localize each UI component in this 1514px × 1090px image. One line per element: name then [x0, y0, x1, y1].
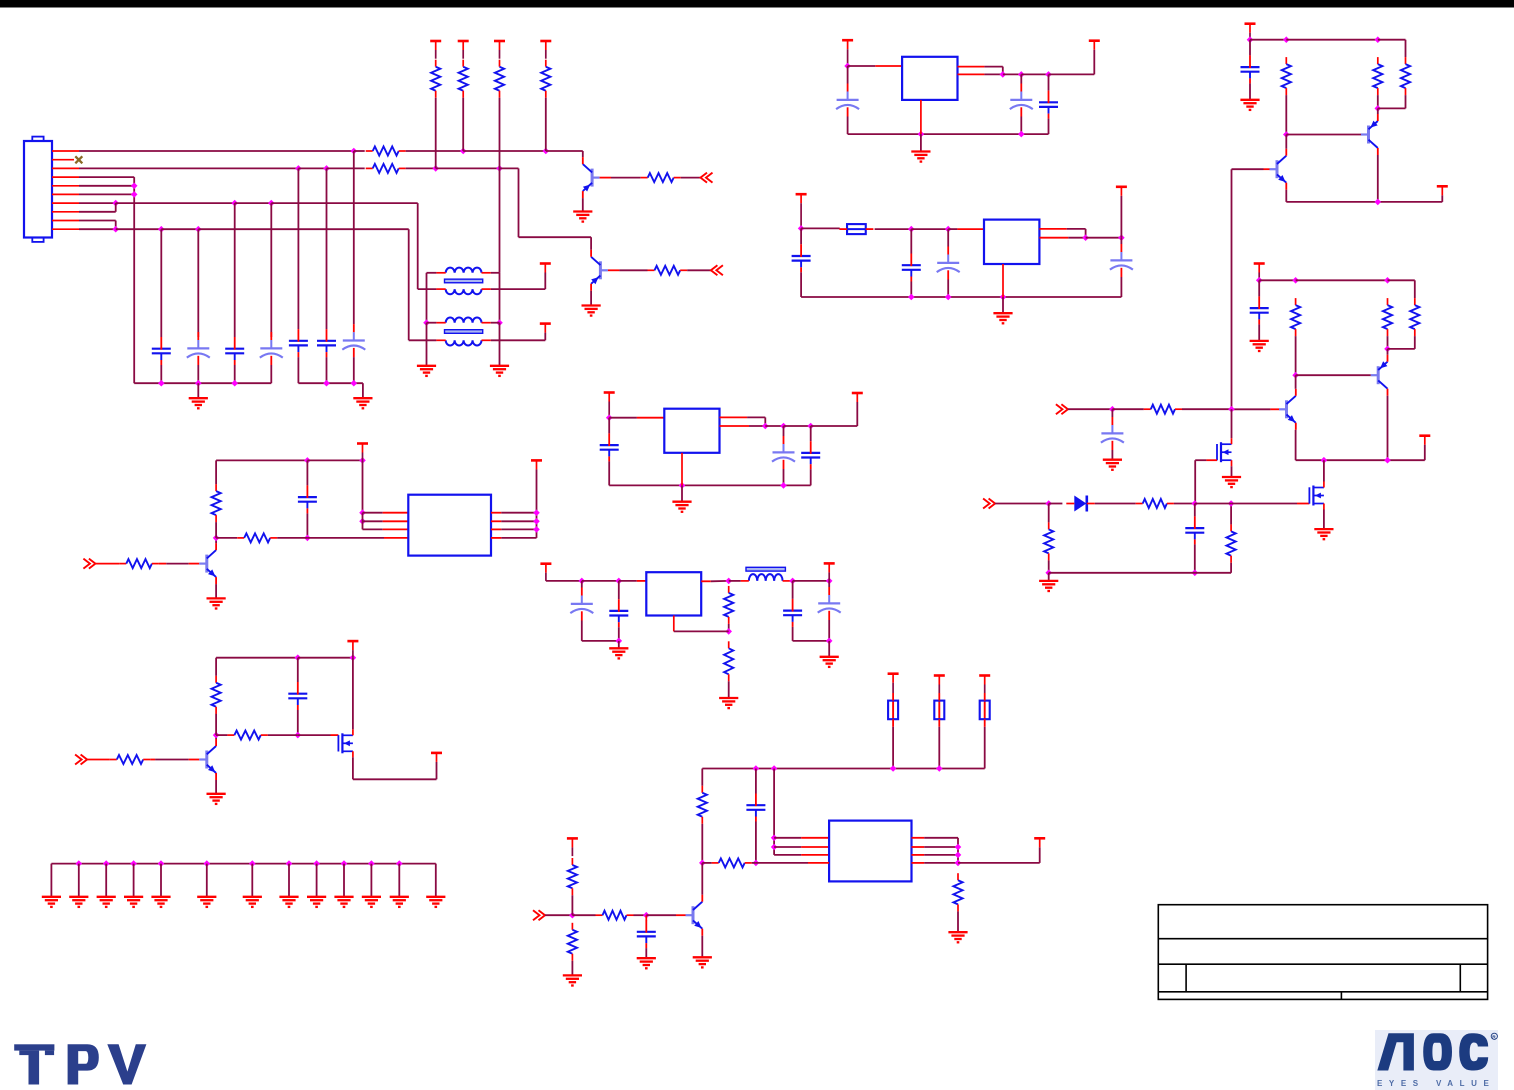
resistor R21 [568, 923, 577, 961]
junction [1384, 457, 1391, 464]
wire [544, 273, 546, 290]
wire [984, 73, 1002, 75]
wire (collector) [1295, 375, 1297, 389]
junction [753, 765, 760, 772]
junction [1192, 500, 1199, 507]
wire [79, 228, 116, 230]
MOSFET Q12 [1309, 482, 1324, 510]
junction [158, 380, 165, 387]
wire [501, 512, 536, 514]
wire [331, 734, 339, 736]
transistor Q10 [1279, 389, 1296, 430]
wire (ground stem) [251, 864, 253, 897]
wire [912, 854, 925, 856]
capacitor C18 [298, 485, 317, 513]
capacitor C16 (polarized) [772, 436, 795, 469]
voltage regulator U1 [902, 57, 957, 100]
junction [359, 509, 366, 516]
wire (cap stub) [645, 915, 647, 920]
resistor R16 [724, 641, 733, 681]
wire [801, 854, 829, 856]
wire [306, 513, 308, 538]
transistor Q7 [1361, 114, 1378, 155]
junction [195, 226, 202, 233]
capacitor C14 (polarized) [1110, 244, 1133, 277]
resistor R7 [641, 173, 681, 182]
wire [1296, 279, 1388, 281]
junction [955, 860, 962, 867]
wire (output tie) [957, 838, 959, 863]
wire [297, 168, 299, 329]
wire [417, 203, 419, 289]
power symbol [357, 444, 368, 461]
wire [1021, 73, 1048, 75]
wire [764, 417, 766, 426]
wire [1259, 279, 1295, 281]
fuse F1 [839, 224, 873, 234]
junction [780, 482, 787, 489]
wire [611, 177, 641, 179]
ground [719, 698, 738, 708]
power symbol [888, 674, 899, 693]
junction [295, 654, 302, 661]
TPV logo [14, 1044, 146, 1084]
junction [789, 578, 796, 585]
ground [948, 932, 967, 942]
wire [571, 895, 573, 915]
wire [215, 522, 217, 538]
junction [131, 183, 138, 190]
capacitor C29 [1185, 516, 1204, 544]
junction [890, 765, 897, 772]
wire [362, 513, 364, 530]
off-page connector (output) [711, 265, 723, 275]
junction [762, 423, 769, 430]
ground [637, 958, 656, 968]
wire (collector) [215, 538, 217, 543]
power symbol VCC [540, 41, 551, 59]
wire [1194, 504, 1196, 517]
capacitor C4 (polarized) [260, 332, 283, 365]
wire [947, 280, 949, 298]
junction [826, 638, 833, 645]
capacitor C11 [792, 244, 811, 272]
junction [286, 860, 293, 867]
capacitor C5 [289, 329, 308, 357]
svg-text:R: R [1492, 1035, 1496, 1041]
capacitor C28 (polarized) [1101, 417, 1124, 450]
wire [938, 727, 940, 769]
wire [571, 961, 573, 975]
ground [243, 897, 262, 907]
wire [1182, 408, 1232, 410]
wire (emitter) [1377, 108, 1379, 114]
capacitor C27 [1250, 296, 1269, 324]
wire [808, 862, 829, 864]
capacitor C20 (polarized) [570, 588, 593, 621]
wire [728, 624, 730, 632]
junction [679, 482, 686, 489]
junction [323, 380, 330, 387]
wire [582, 640, 619, 642]
junction [1228, 406, 1235, 413]
wire [362, 383, 364, 397]
junction [1018, 71, 1025, 78]
junction [725, 628, 732, 635]
wire [270, 365, 272, 383]
wire [1020, 117, 1022, 135]
wire [1174, 503, 1195, 505]
power symbol [431, 753, 442, 762]
wire [755, 769, 757, 794]
junction [908, 294, 915, 301]
no-connect X on pin 2 [75, 156, 82, 163]
power symbol [852, 393, 863, 402]
power symbol [540, 564, 551, 581]
ground [911, 152, 930, 162]
wire [427, 322, 437, 324]
junction [1118, 234, 1125, 241]
junction [323, 165, 330, 172]
wire [783, 469, 785, 485]
wire [491, 528, 501, 530]
resistor R25 [1401, 57, 1410, 95]
wire [499, 98, 501, 169]
wire [234, 365, 236, 383]
resistor R32 [1227, 524, 1236, 562]
junction [496, 319, 503, 326]
wire [297, 658, 299, 682]
wire [160, 365, 162, 383]
wire [79, 185, 134, 187]
junction [304, 457, 311, 464]
wire [1194, 460, 1196, 503]
wire (ground stem) [398, 864, 400, 897]
wire (ground bus) [801, 296, 1121, 298]
wire [116, 202, 235, 204]
wire [491, 322, 500, 324]
capacitor C3 [225, 337, 244, 365]
junction [204, 860, 211, 867]
power symbol [1437, 186, 1448, 195]
voltage regulator U3 [664, 409, 719, 453]
wire [463, 150, 546, 152]
wire [810, 426, 812, 441]
wire [1085, 229, 1087, 238]
power symbol [1419, 436, 1430, 445]
power symbol VCC [430, 41, 441, 59]
resistor R14 [227, 731, 267, 740]
wire [353, 778, 437, 780]
wire (ground stem) [343, 864, 345, 897]
wire (ground stem) [435, 864, 437, 897]
wire [383, 512, 409, 514]
junction [616, 638, 623, 645]
wire [298, 657, 353, 659]
wire [1120, 238, 1122, 244]
resistor R11 [237, 533, 277, 542]
wire [701, 580, 711, 582]
wire [582, 151, 584, 157]
wire [1424, 445, 1426, 461]
power symbol [567, 838, 578, 856]
ground [1240, 100, 1259, 110]
wire [1414, 336, 1416, 349]
wire [924, 862, 958, 864]
MOSFET Q5 [338, 729, 353, 757]
resistor R31 [1136, 499, 1174, 508]
wire [1230, 563, 1232, 573]
wire [774, 846, 801, 848]
wire [645, 948, 647, 958]
ground [279, 897, 298, 907]
wire [215, 460, 217, 484]
pin 8 lead [52, 211, 79, 213]
wire [408, 229, 410, 340]
wire [912, 837, 925, 839]
ground [820, 657, 839, 667]
wire [1230, 504, 1232, 525]
junction [112, 226, 119, 233]
wire [681, 177, 701, 179]
wire [79, 220, 116, 222]
junction [432, 165, 439, 172]
wire [116, 228, 162, 230]
junction [249, 860, 256, 867]
junction [1321, 457, 1328, 464]
wire (ground stem) [206, 864, 208, 897]
ground [609, 648, 628, 658]
capacitor C7 (polarized) [342, 324, 365, 357]
title block [1158, 905, 1487, 1000]
wire [801, 837, 829, 839]
ground [693, 957, 712, 967]
junction [918, 131, 925, 138]
wire [1195, 503, 1231, 505]
off-page connector (input) [533, 910, 545, 920]
power symbol [540, 264, 551, 273]
wire (ground stem) [105, 864, 107, 897]
resistor R19 [953, 873, 962, 911]
junction [955, 852, 962, 859]
pin 9 lead [52, 220, 79, 222]
wire (drain) [1323, 460, 1325, 481]
capacitor C12 [902, 254, 921, 282]
wire [155, 759, 189, 761]
wire (ground stem) [133, 864, 135, 897]
wire (ground stem) [316, 864, 318, 897]
wire [1249, 40, 1251, 56]
junction [908, 226, 915, 233]
black top bar [0, 0, 1514, 8]
wire [234, 203, 236, 337]
capacitor C9 (polarized) [1010, 84, 1033, 117]
wire [911, 228, 948, 230]
wire [681, 485, 683, 501]
wire [363, 512, 383, 514]
capacitor C25 [637, 920, 656, 948]
wire [491, 272, 500, 274]
wire [436, 167, 500, 169]
wire [546, 150, 583, 152]
wire [774, 854, 801, 856]
wire (emitter) [1285, 190, 1287, 202]
wire [801, 227, 840, 229]
junction [771, 835, 778, 842]
wire [159, 563, 166, 565]
resistor R20 [568, 858, 577, 895]
junction [1247, 36, 1254, 43]
junction [195, 380, 202, 387]
junction [1292, 277, 1299, 284]
wire [720, 416, 748, 418]
wire [161, 228, 198, 230]
wire [1441, 195, 1443, 202]
wire [1048, 504, 1050, 523]
wire [216, 734, 227, 736]
junction [579, 578, 586, 585]
wire [426, 323, 428, 366]
wire [545, 98, 547, 151]
wire [646, 914, 676, 916]
junction [936, 765, 943, 772]
capacitor C1 [152, 337, 171, 365]
ground [334, 897, 353, 907]
fuse F3 [934, 693, 944, 727]
wire [590, 237, 592, 250]
wire [353, 151, 355, 324]
wire (collector) [701, 863, 703, 895]
wire [1286, 134, 1361, 136]
wire (IC ground pin) [681, 453, 683, 486]
off-page connector (input) [1056, 404, 1068, 414]
junction [826, 578, 833, 585]
wire [1111, 409, 1113, 417]
transistor Q6 [686, 895, 703, 936]
wire [491, 339, 546, 341]
junction [231, 200, 238, 207]
wire [1039, 228, 1066, 230]
wire [774, 837, 801, 839]
wire [756, 862, 808, 864]
power symbol [934, 676, 945, 694]
wire (ground stem) [288, 864, 290, 897]
resistor R12 [110, 755, 150, 764]
wire [1264, 168, 1270, 170]
wire [1258, 324, 1260, 340]
wire (emitter) [215, 584, 217, 598]
wire [1039, 847, 1041, 863]
wire [198, 228, 408, 230]
wire [384, 537, 408, 539]
wire [215, 658, 217, 676]
junction [780, 423, 787, 430]
wire [608, 269, 620, 271]
power symbol [604, 393, 615, 418]
wire [491, 512, 501, 514]
pin 10 lead [52, 228, 79, 230]
wire [306, 460, 308, 485]
wire [800, 228, 802, 244]
AOC logo [1375, 1030, 1498, 1090]
wire [958, 73, 985, 75]
wire [298, 734, 331, 736]
ground [362, 897, 381, 907]
wire [409, 339, 437, 341]
wire [957, 911, 959, 931]
wire [1285, 95, 1287, 134]
wire [1388, 348, 1415, 350]
wire (VCC feed) [536, 469, 538, 538]
junction [771, 765, 778, 772]
resistor R17 [698, 786, 707, 824]
wire (IC ground pin) [920, 100, 922, 134]
wire [326, 168, 328, 329]
wire [619, 269, 647, 271]
common-mode choke L2 [436, 318, 490, 346]
pin 3 lead [52, 167, 79, 169]
pin 7 lead [52, 202, 79, 204]
junction [496, 165, 503, 172]
wire (emitter) [582, 198, 584, 211]
junction [351, 380, 358, 387]
junction [1384, 277, 1391, 284]
junction [112, 200, 119, 207]
junction [304, 535, 311, 542]
wire [383, 520, 409, 522]
power symbol [1245, 24, 1256, 40]
wire [800, 272, 802, 297]
wire [1387, 336, 1389, 349]
ground [124, 897, 143, 907]
capacitor C13 (polarized) [937, 247, 960, 280]
wire [600, 177, 611, 179]
ground [582, 306, 601, 316]
IC U4 [408, 495, 491, 556]
wire [1049, 73, 1095, 75]
wire [792, 581, 794, 599]
wire [1388, 279, 1415, 281]
wire [875, 65, 902, 67]
MOSFET Q11 [1217, 438, 1232, 466]
wire (input) [95, 563, 119, 565]
junction [1375, 105, 1382, 112]
wire [1232, 408, 1271, 410]
junction [844, 63, 851, 70]
wire [307, 537, 384, 539]
wire (ground bus) [134, 382, 271, 384]
ground [69, 897, 88, 907]
wire (ground stem) [160, 864, 162, 897]
capacitor C26 [1241, 55, 1260, 83]
ground [207, 598, 226, 608]
wire [354, 150, 365, 152]
wire [619, 580, 637, 582]
resistor R18 [712, 858, 752, 867]
wire [189, 759, 200, 761]
wire (VCC feed) [362, 460, 364, 512]
wire [1048, 74, 1050, 90]
wire [1232, 168, 1264, 170]
power symbol [979, 676, 990, 694]
wire [609, 417, 637, 419]
junction [533, 518, 540, 525]
junction [945, 294, 952, 301]
wire [1095, 503, 1136, 505]
wire [848, 65, 876, 67]
wire [326, 357, 328, 383]
ground [573, 212, 592, 222]
